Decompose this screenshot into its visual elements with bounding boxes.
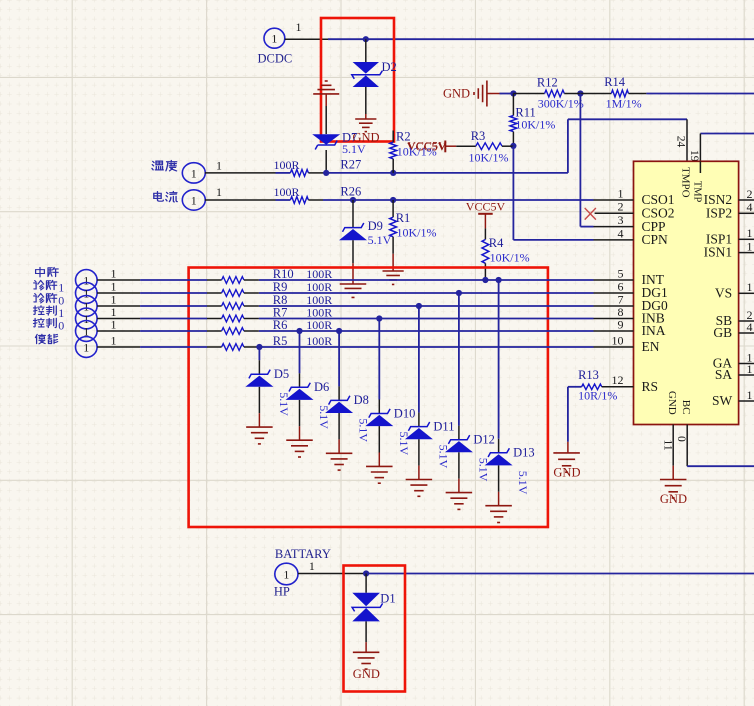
resistor R2: [392, 131, 394, 143]
pin ISP1 (right): [739, 238, 754, 240]
svg-text:1: 1: [191, 166, 197, 180]
ground R13: [553, 452, 580, 454]
selection box 3: [344, 566, 406, 692]
no-ERC marker CSO2: [585, 208, 596, 220]
svg-text:R3: R3: [471, 129, 486, 143]
label 电流: [154, 191, 177, 201]
resistor R10: [222, 277, 244, 284]
label 温度: [152, 160, 177, 170]
ground R1: [383, 270, 404, 272]
svg-text:R14: R14: [604, 75, 626, 89]
svg-text:ISP2: ISP2: [706, 205, 732, 220]
wire TMPO net: [323, 172, 568, 174]
wire R14 to right edge: [629, 93, 647, 95]
svg-text:VCC5V: VCC5V: [407, 139, 447, 153]
port row R6: [76, 321, 98, 342]
wire R14 left stub: [580, 93, 611, 95]
pin 12 RS: [602, 386, 634, 388]
svg-text:EN: EN: [642, 339, 660, 354]
svg-text:1: 1: [58, 281, 64, 295]
wire D2 top: [365, 39, 367, 62]
svg-text:5.1V: 5.1V: [368, 233, 392, 247]
diode D5: [245, 376, 273, 387]
svg-text:R10: R10: [273, 267, 294, 281]
svg-text:1: 1: [283, 567, 289, 581]
svg-text:D12: D12: [473, 433, 495, 447]
pin 6 DG1: [594, 292, 634, 294]
svg-text:RS: RS: [642, 379, 659, 394]
wire R8 row: [97, 305, 140, 307]
wire TMP net: [700, 133, 754, 135]
wire R1 to ground: [392, 254, 394, 271]
junction node D9 top: [350, 197, 356, 203]
junction node R11 top: [510, 90, 516, 96]
svg-text:0: 0: [675, 436, 687, 442]
svg-text:VCC5V: VCC5V: [466, 200, 506, 214]
svg-text:R4: R4: [489, 236, 504, 250]
junction node D6: [296, 328, 302, 334]
svg-text:ISN1: ISN1: [704, 245, 733, 260]
svg-text:1: 1: [111, 318, 117, 332]
pin 4 CPN: [594, 239, 634, 241]
resistor R5: [222, 344, 244, 351]
pin 1 CSO1: [594, 199, 634, 201]
svg-text:24: 24: [675, 136, 687, 148]
junction node D13: [496, 277, 502, 283]
wire D5 to ground: [258, 387, 260, 413]
wire R5 to IC: [259, 346, 594, 348]
svg-text:100R: 100R: [274, 185, 300, 199]
ground D13: [485, 505, 512, 507]
svg-text:D13: D13: [513, 446, 535, 460]
pin ISN1 (right): [739, 252, 754, 254]
svg-text:10K/1%: 10K/1%: [490, 251, 530, 265]
svg-text:10R/1%: 10R/1%: [578, 389, 617, 403]
wire D7 to R27 row: [325, 150, 327, 173]
svg-text:GND: GND: [353, 667, 380, 681]
svg-text:1: 1: [747, 226, 753, 240]
junction node D11: [416, 303, 422, 309]
port DCDC: [264, 28, 285, 48]
svg-text:100R: 100R: [306, 280, 332, 294]
svg-text:R12: R12: [537, 76, 558, 90]
ground D8: [326, 452, 353, 454]
svg-text:100R: 100R: [306, 318, 332, 332]
resistor R6: [222, 328, 244, 335]
svg-text:19: 19: [688, 150, 700, 162]
wire D13 column: [498, 280, 500, 439]
svg-text:R1: R1: [396, 211, 411, 225]
svg-text:R5: R5: [273, 334, 288, 348]
svg-text:10: 10: [612, 333, 624, 347]
junction node D12: [456, 290, 462, 296]
diode D11: [405, 428, 433, 439]
wire dianliu to CSO1: [323, 199, 594, 201]
node label row R7: [34, 306, 57, 315]
resistor R7: [222, 315, 244, 322]
ground D12: [446, 492, 473, 494]
svg-text:D11: D11: [433, 419, 454, 433]
wire wendu row: [205, 172, 276, 174]
svg-text:5.1V: 5.1V: [476, 458, 490, 482]
svg-text:100R: 100R: [306, 267, 332, 281]
wire D12 to ground: [458, 452, 460, 478]
wire D1 top: [365, 574, 367, 593]
wire R9 to IC: [259, 292, 594, 294]
svg-text:5.1V: 5.1V: [277, 392, 291, 416]
svg-text:6: 6: [618, 279, 624, 293]
svg-text:BATTARY: BATTARY: [275, 547, 331, 561]
svg-text:1: 1: [83, 273, 89, 287]
diode D9: [352, 200, 354, 227]
ground U1: [660, 479, 687, 481]
svg-text:1: 1: [216, 159, 222, 173]
junction node D5: [256, 344, 262, 350]
wire R9 row: [97, 292, 140, 294]
wire D13 to ground: [498, 465, 500, 491]
svg-text:GND: GND: [660, 492, 687, 506]
svg-text:300K/1%: 300K/1%: [538, 96, 584, 110]
wire R12-R14: [564, 93, 580, 95]
svg-text:D1: D1: [380, 592, 395, 606]
svg-text:10K/1%: 10K/1%: [515, 118, 555, 132]
resistor R14: [611, 90, 628, 97]
wire D8 column: [338, 331, 340, 386]
pin SB (right): [739, 320, 754, 322]
node label row R6: [34, 318, 57, 327]
svg-text:100R: 100R: [306, 334, 332, 348]
wire D2 bottom: [365, 87, 367, 114]
selection box 1: [321, 18, 394, 142]
pin ISP2 (right): [739, 212, 754, 214]
svg-text:0: 0: [58, 319, 64, 333]
resistor R26: [290, 197, 308, 204]
resistor R13: [568, 386, 582, 388]
wire R13 to ground: [567, 387, 569, 442]
svg-text:D5: D5: [274, 367, 289, 381]
junction node D7-R27: [323, 170, 329, 176]
diode D1 (TVS): [352, 593, 380, 606]
pin 8 INB: [594, 318, 634, 320]
svg-text:VS: VS: [715, 285, 732, 300]
wire node B to CPP: [579, 94, 581, 227]
svg-text:GB: GB: [713, 325, 732, 340]
pin 7 DG0: [594, 305, 634, 307]
wire D12 column: [458, 293, 460, 426]
wire D1 bottom: [365, 621, 367, 642]
resistor R12: [545, 90, 565, 97]
resistor R8: [222, 303, 244, 310]
node label row R5: [35, 334, 57, 344]
diode D7: [312, 134, 340, 145]
pin 19 TMP: [699, 134, 701, 174]
svg-text:1: 1: [111, 334, 117, 348]
svg-text:1: 1: [309, 559, 315, 573]
svg-text:3: 3: [618, 213, 624, 227]
resistor R1: [392, 200, 394, 217]
junction node R3-R11: [510, 143, 516, 149]
wire R6 row: [97, 330, 140, 332]
wire D5 column: [258, 347, 260, 360]
pin SA (right): [739, 374, 754, 376]
svg-text:1: 1: [271, 32, 277, 46]
svg-text:GND: GND: [666, 391, 678, 415]
pin 24 TMPO: [686, 119, 688, 161]
ground D6: [286, 439, 313, 441]
svg-text:DCDC: DCDC: [258, 52, 293, 66]
junction node D1 top: [363, 570, 369, 576]
svg-text:5.1V: 5.1V: [516, 471, 530, 495]
svg-text:5.1V: 5.1V: [397, 432, 411, 456]
svg-text:1: 1: [83, 286, 89, 300]
resistor R3: [456, 145, 476, 147]
wire R7 to IC: [259, 318, 594, 320]
pin 3 CPP: [594, 226, 634, 228]
svg-text:D8: D8: [354, 393, 369, 407]
wire D11 to ground: [418, 439, 420, 465]
pin 19 TMP inner segment: [699, 161, 701, 173]
svg-text:10K/1%: 10K/1%: [469, 150, 509, 164]
svg-text:TMPO: TMPO: [680, 167, 692, 198]
svg-text:1: 1: [747, 388, 753, 402]
svg-text:2: 2: [747, 187, 753, 201]
svg-text:1: 1: [111, 280, 117, 294]
svg-text:1: 1: [216, 185, 222, 199]
svg-text:GND: GND: [443, 86, 470, 100]
wire R10 row: [97, 279, 140, 281]
ground D9: [340, 283, 367, 285]
svg-text:10K/1%: 10K/1%: [397, 226, 437, 240]
svg-text:12: 12: [612, 373, 624, 387]
svg-text:1: 1: [296, 20, 302, 34]
node label row R9: [34, 280, 57, 290]
diode D2 (TVS): [353, 62, 379, 74]
resistor R27: [290, 170, 308, 177]
node label row R8: [34, 293, 57, 303]
port row R5: [76, 337, 98, 358]
pin GB (right): [739, 332, 754, 334]
wire R7 row: [97, 318, 140, 320]
port row R8: [76, 296, 98, 317]
svg-text:R9: R9: [273, 280, 288, 294]
wire dianliu row: [205, 199, 276, 201]
svg-text:5.1V: 5.1V: [357, 418, 371, 442]
junction node R1 top: [390, 197, 396, 203]
wire D8 to ground: [338, 413, 340, 439]
wire R6 to IC: [259, 330, 594, 332]
svg-text:5.1V: 5.1V: [342, 142, 366, 156]
svg-text:5.1V: 5.1V: [436, 445, 450, 469]
svg-text:GND: GND: [553, 466, 580, 480]
port row R10: [76, 270, 98, 291]
svg-text:D9: D9: [368, 219, 383, 233]
svg-text:2: 2: [618, 200, 624, 214]
ground D10: [366, 465, 393, 467]
wire D11 column: [418, 306, 420, 413]
svg-text:11: 11: [662, 440, 674, 451]
svg-text:HP: HP: [274, 585, 290, 599]
wire D10 to ground: [378, 426, 380, 452]
svg-text:CPN: CPN: [642, 232, 669, 247]
wire DCDC to right edge: [285, 38, 328, 40]
svg-text:4: 4: [618, 226, 624, 240]
pin 20 BC: [686, 425, 688, 467]
pin GA (right): [739, 363, 754, 365]
svg-text:SA: SA: [715, 367, 733, 382]
pin 2 CSO2: [595, 212, 634, 214]
port 温度: [182, 163, 205, 183]
svg-text:R6: R6: [273, 318, 288, 332]
junction node D2 top: [363, 36, 369, 42]
svg-text:1: 1: [618, 186, 624, 200]
wire R8 to IC: [259, 305, 594, 307]
svg-text:1: 1: [111, 267, 117, 281]
pin VS (right): [739, 292, 754, 294]
wire HP row: [298, 573, 366, 575]
svg-text:BC: BC: [680, 400, 692, 415]
diode D8: [325, 402, 353, 413]
port HP: [275, 563, 298, 585]
ground D1: [353, 651, 380, 653]
svg-text:1: 1: [83, 340, 89, 354]
wire BC to right edge: [687, 465, 754, 467]
pin 5 INT: [594, 279, 634, 281]
svg-text:R26: R26: [340, 185, 361, 199]
resistor R4: [484, 228, 486, 239]
svg-text:INA: INA: [642, 323, 666, 338]
ground D11: [406, 479, 433, 481]
svg-text:1: 1: [747, 280, 753, 294]
svg-text:100R: 100R: [274, 158, 300, 172]
svg-text:R13: R13: [578, 368, 599, 382]
pin 9 INA: [594, 330, 634, 332]
svg-text:1: 1: [747, 239, 753, 253]
svg-text:SW: SW: [712, 393, 733, 408]
junction node R2 bottom: [390, 170, 396, 176]
ground D2: [355, 118, 376, 120]
wire D9 to ground: [352, 240, 354, 263]
svg-text:1: 1: [191, 193, 197, 207]
diode D13: [485, 454, 513, 465]
wire node A to CPN: [512, 146, 514, 240]
svg-text:9: 9: [618, 317, 624, 331]
wire R5 row: [97, 346, 140, 348]
port row R7: [76, 308, 98, 329]
svg-text:4: 4: [747, 320, 753, 334]
svg-text:R27: R27: [340, 158, 361, 172]
svg-text:D10: D10: [394, 406, 416, 420]
svg-text:D2: D2: [382, 60, 397, 74]
ground D5: [246, 426, 273, 428]
node label row R10: [36, 267, 59, 277]
selection box 2: [189, 268, 548, 528]
svg-text:1: 1: [747, 362, 753, 376]
power port GND above D7: [325, 80, 328, 82]
junction node D8: [336, 328, 342, 334]
resistor R9: [222, 290, 244, 297]
resistor R11: [512, 94, 514, 116]
diode D10: [365, 415, 393, 426]
port row R9: [76, 283, 98, 304]
wire R12 left stub: [513, 93, 544, 95]
diode D6: [286, 389, 314, 400]
junction node R12-R14: [577, 90, 583, 96]
pin ISN2 (right): [739, 199, 754, 201]
junction node D10: [376, 315, 382, 321]
wire D6 to ground: [299, 400, 301, 426]
wire R10 to IC: [259, 279, 594, 281]
svg-text:5: 5: [618, 266, 624, 280]
svg-text:TMP: TMP: [692, 181, 703, 203]
pin 10 EN: [594, 346, 634, 348]
junction node R4 bottom: [482, 277, 488, 283]
wire D10 column: [378, 319, 380, 400]
svg-text:5.1V: 5.1V: [317, 405, 331, 429]
component U1 body: [634, 161, 739, 424]
svg-text:4: 4: [747, 200, 753, 214]
svg-text:1M/1%: 1M/1%: [606, 96, 642, 110]
pin SW (right): [739, 400, 754, 402]
port 电流: [182, 190, 205, 210]
svg-text:D6: D6: [314, 380, 329, 394]
wire D6 column: [299, 331, 301, 373]
diode D12: [445, 441, 473, 452]
pin 11 GND: [672, 425, 674, 466]
